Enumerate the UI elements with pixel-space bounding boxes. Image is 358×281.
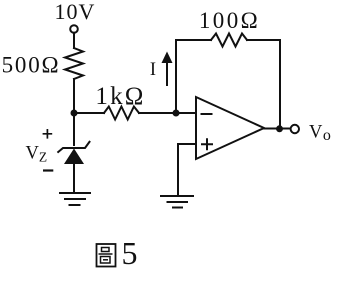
op-amp U1 [196,97,264,159]
terminal 10V [70,25,78,33]
ground right [161,196,193,208]
ground left [60,193,90,205]
wire feedback right [279,40,281,129]
resistor R1 500ohm [65,48,83,79]
caption figure 5 glyph [97,244,116,267]
label VZ plus [43,129,53,139]
wire [74,112,104,114]
node out junction dot [276,125,283,132]
wire [73,79,75,145]
wire [73,164,75,193]
resistor R2 1kohm [104,107,139,120]
svg-text:10V: 10V [55,0,96,24]
wire feedback top [176,39,211,41]
wire output [264,128,291,130]
current arrow I [166,60,168,85]
arrowhead I [162,52,173,64]
svg-text:Vo: Vo [309,123,331,144]
svg-text:5: 5 [122,235,138,271]
svg-text:I: I [150,60,156,80]
svg-text:500Ω: 500Ω [2,53,61,78]
wire noninverting [178,144,196,196]
svg-text:1kΩ: 1kΩ [95,83,145,110]
svg-text:100Ω: 100Ω [199,8,260,33]
svg-text:VZ: VZ [26,144,48,165]
node A junction dot [71,110,78,117]
wire [247,39,280,41]
op-amp plus sign [202,139,212,149]
wire [73,33,75,48]
op-amp minus sign [202,113,212,115]
label VZ minus [43,169,53,171]
zener diode cathode bar [58,142,89,152]
terminal Vo [291,125,299,133]
wire feedback left [175,40,177,113]
wire [139,112,196,114]
zener diode body [64,149,84,165]
resistor R3 100ohm [211,34,247,47]
node B junction dot [173,110,180,117]
